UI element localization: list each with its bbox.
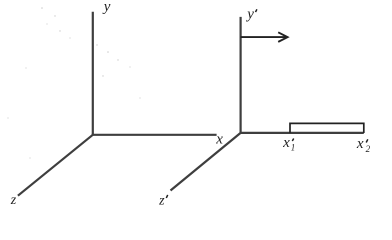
svg-text:x: x (282, 135, 290, 151)
velocity arrow (241, 32, 288, 42)
svg-text:y: y (102, 0, 111, 15)
svg-text:x: x (215, 132, 223, 148)
scan speckles (7, 7, 140, 158)
x-axis (frame S) (92, 134, 217, 136)
label z' (158, 193, 168, 208)
label x'2 (356, 136, 371, 154)
svg-text:z: z (10, 193, 17, 208)
label x'1 (282, 135, 295, 153)
svg-text:x: x (356, 136, 364, 152)
z-axis (frame S) (18, 135, 93, 196)
y-axis (frame S) (92, 12, 94, 135)
x'-axis (frame S') (240, 132, 364, 134)
svg-text:z: z (158, 193, 165, 208)
svg-text:2: 2 (366, 144, 371, 154)
rod on x'-axis (290, 123, 364, 133)
svg-text:1: 1 (291, 142, 296, 152)
z'-axis (frame S') (171, 133, 241, 191)
label y' (245, 6, 257, 22)
y'-axis (frame S') (240, 17, 242, 133)
svg-text:y: y (245, 6, 254, 22)
